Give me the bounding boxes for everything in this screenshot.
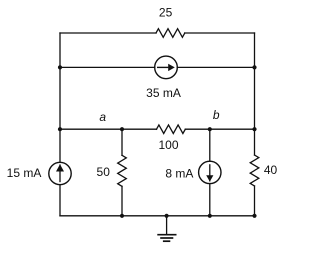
wire node-a column upper <box>121 129 123 155</box>
resistor R 100 ohm (middle) <box>157 125 186 134</box>
junction dot bottom node-a column <box>120 214 124 218</box>
svg-text:15 mA: 15 mA <box>7 166 42 180</box>
svg-text:b: b <box>213 108 220 122</box>
junction dot bottom ground <box>165 214 169 218</box>
wire node-a column lower <box>121 186 123 216</box>
resistor R 25 ohm (top) <box>156 29 185 38</box>
arrow of 8mA source <box>209 164 210 181</box>
svg-text:100: 100 <box>158 138 178 152</box>
current source I 35mA circle <box>155 56 178 79</box>
wire middle row right <box>185 128 254 130</box>
wire bottom row <box>60 215 255 217</box>
svg-text:25: 25 <box>159 6 173 20</box>
ground bar 3 <box>163 240 170 242</box>
ground bar 2 <box>160 237 173 239</box>
junction dot right middle row <box>252 127 256 131</box>
wire left vertical upper <box>59 33 61 129</box>
current source I 8mA circle <box>199 161 221 183</box>
ground bar 1 <box>157 234 176 236</box>
wire second row right <box>177 66 254 68</box>
wire left vertical lower <box>59 185 61 216</box>
junction dot left middle row <box>58 127 62 131</box>
wire left vertical middle <box>59 129 61 162</box>
wire top-right segment <box>185 32 255 34</box>
resistor R 50 ohm (vertical) <box>118 155 127 186</box>
junction dot node a <box>120 127 124 131</box>
junction dot right second row <box>252 65 256 69</box>
junction dot bottom node-b column <box>208 214 212 218</box>
wire middle row left <box>60 128 157 130</box>
wire right vertical lower <box>254 186 256 216</box>
junction dot bottom right <box>252 214 256 218</box>
svg-text:50: 50 <box>97 165 111 179</box>
wire right vertical upper <box>254 33 256 155</box>
svg-text:40: 40 <box>264 163 278 177</box>
arrow of 35mA source <box>157 67 168 68</box>
current source I 15mA circle <box>49 162 71 184</box>
junction dot node b <box>208 127 212 131</box>
junction dot left second row <box>58 65 62 69</box>
wire node-b column lower <box>209 184 211 216</box>
svg-text:a: a <box>99 110 106 124</box>
wire node-b column upper <box>209 129 211 161</box>
wire second row left <box>60 66 155 68</box>
ground stem <box>166 216 168 234</box>
svg-text:35 mA: 35 mA <box>146 86 181 100</box>
arrow of 15mA source <box>59 164 60 182</box>
resistor R 40 ohm (vertical) <box>250 155 259 186</box>
svg-text:8 mA: 8 mA <box>165 166 193 180</box>
wire top-left segment <box>60 32 156 34</box>
